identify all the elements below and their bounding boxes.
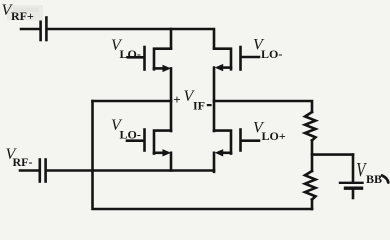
wire M2 source down to IF node [213, 68, 216, 101]
capacitor C2 (RF- coupling) [40, 160, 46, 182]
transistor M3 source segment [154, 152, 164, 155]
label - (IF polarity) [207, 104, 212, 106]
transistor M4 source arrow [215, 149, 224, 156]
transistor M4 gate bar [239, 130, 242, 151]
wire M4 drain lead from IF [213, 101, 216, 131]
wire left return: IF+ down and along bottom [93, 101, 313, 209]
transistor M4 bottom-right: drain step and channel [214, 131, 231, 154]
wire IF line right segment to resistor corner [214, 101, 312, 112]
transistor M2 top-right: drain step and channel [214, 49, 231, 70]
svg-text:+: + [173, 92, 180, 107]
wire RF- rail to M4 source [47, 169, 214, 172]
transistor M1 gate lead [128, 56, 143, 59]
wire R2 bottom to rail [311, 200, 314, 210]
wire M3 source down to RF- rail [170, 153, 173, 171]
transistor M3 bottom-left: drain step and channel [154, 131, 171, 154]
wire battery top lead [352, 155, 355, 182]
wire M3 drain lead from IF [170, 101, 173, 131]
label V_BB [356, 158, 382, 186]
wire M1 drain lead from rail [170, 29, 173, 48]
wire RF- left of capacitor [20, 169, 39, 172]
transistor M2 gate bar [239, 47, 242, 70]
wire IF line left segment [93, 100, 172, 103]
capacitor C1 (RF+ coupling) [41, 18, 47, 41]
wire junction to battery VBB [312, 153, 353, 156]
transistor M4 gate lead [242, 139, 259, 142]
battery VBB long plate [340, 182, 363, 184]
transistor M3 source arrow [163, 149, 172, 156]
transistor M3 gate lead [127, 139, 143, 142]
resistor R2 lower zigzag [305, 171, 316, 200]
label V_IF [184, 88, 206, 113]
label V_LO+ (M4 gate) [253, 120, 286, 143]
wire RF+ rail left of capacitor [21, 28, 40, 31]
svg-text:BB: BB [366, 172, 382, 186]
svg-text:LO+: LO+ [262, 129, 286, 143]
wire between resistors [311, 140, 314, 171]
transistor M1 gate bar [143, 47, 146, 70]
transistor M1 source segment [154, 67, 164, 70]
resistor R1 upper zigzag [305, 112, 316, 140]
label V_RF- [6, 146, 33, 169]
transistor M4 source segment [221, 152, 231, 155]
svg-text:LO-: LO- [120, 47, 141, 61]
label V_LO- (M1 gate) [111, 37, 141, 61]
label V_LO- (M2 gate) [253, 37, 282, 61]
faded erased-text box behind RF+ [7, 5, 43, 21]
label V_RF+ [2, 2, 34, 23]
wire RF+ rail to M2 drain corner [48, 29, 215, 48]
svg-text:IF: IF [193, 99, 205, 113]
transistor M1 top-left: drain step and channel [154, 49, 171, 70]
svg-text:LO-: LO- [120, 128, 141, 142]
wire M4 source down to RF- rail end [213, 153, 216, 172]
stray comma mark after V_BB [382, 176, 388, 183]
transistor M3 gate bar [143, 130, 146, 151]
svg-text:RF+: RF+ [11, 9, 34, 23]
wire M1 source down to IF node [170, 68, 173, 101]
label V_LO- (M3 gate) [111, 117, 141, 142]
svg-text:LO-: LO- [261, 47, 282, 61]
transistor M2 source segment [221, 66, 231, 69]
battery VBB short plate [346, 186, 362, 189]
svg-text:RF-: RF- [13, 155, 33, 169]
transistor M2 source arrow [215, 64, 224, 71]
transistor M1 source arrow [163, 65, 172, 72]
battery VBB bottom stub [352, 190, 355, 198]
transistor M2 gate lead [242, 56, 259, 59]
